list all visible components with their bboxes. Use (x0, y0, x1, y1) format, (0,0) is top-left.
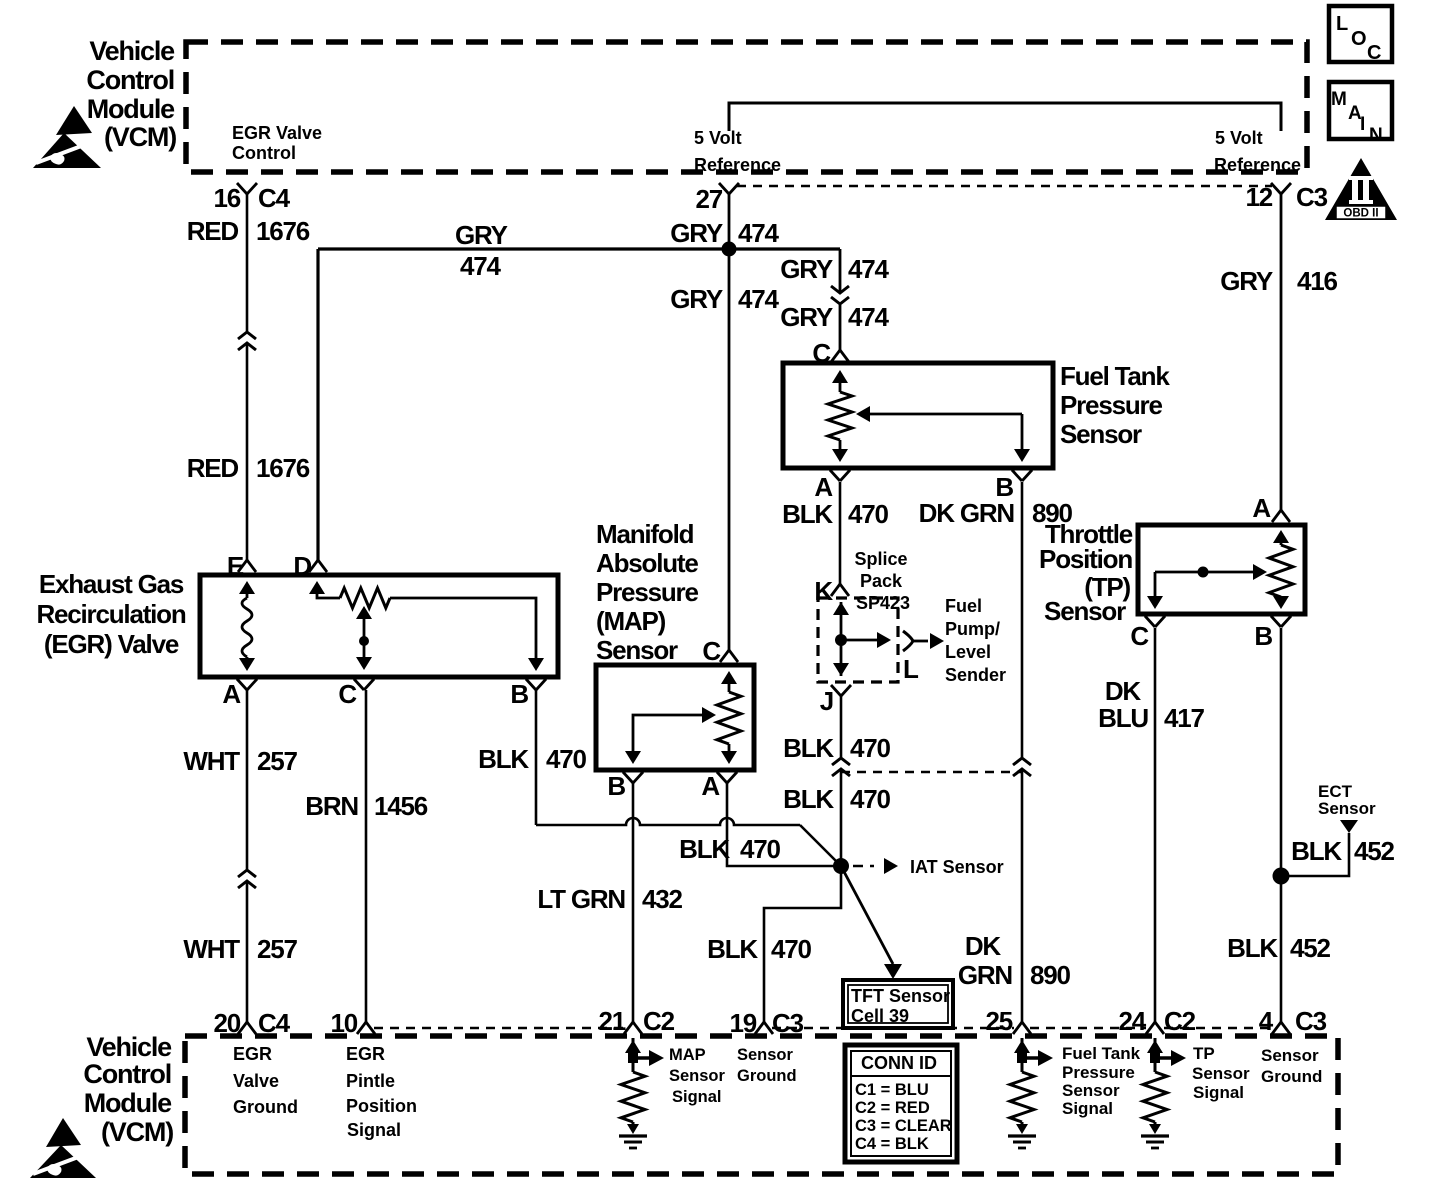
svg-text:474: 474 (738, 218, 780, 248)
svg-text:MAP: MAP (669, 1046, 706, 1064)
svg-text:GRN: GRN (958, 960, 1013, 990)
svg-text:474: 474 (848, 254, 890, 284)
svg-text:BLK: BLK (783, 733, 834, 763)
svg-text:WHT: WHT (183, 746, 240, 776)
svg-text:417: 417 (1164, 703, 1205, 733)
svg-text:(EGR) Valve: (EGR) Valve (44, 629, 179, 659)
svg-text:GRY: GRY (780, 302, 833, 332)
svg-text:Level: Level (945, 642, 991, 662)
svg-text:EGR: EGR (233, 1044, 272, 1064)
svg-text:12: 12 (1245, 182, 1272, 212)
svg-text:Signal: Signal (672, 1088, 722, 1106)
svg-text:Valve: Valve (233, 1071, 279, 1091)
svg-text:OBD II: OBD II (1343, 208, 1378, 220)
svg-text:27: 27 (695, 184, 722, 214)
svg-text:A: A (1252, 493, 1271, 523)
svg-text:E: E (227, 551, 244, 581)
svg-text:Control: Control (232, 143, 296, 163)
svg-text:1676: 1676 (256, 216, 310, 246)
svg-text:B: B (1254, 621, 1272, 651)
svg-text:C: C (1130, 621, 1149, 651)
svg-text:RED: RED (187, 216, 239, 246)
svg-text:Control: Control (83, 1059, 171, 1089)
svg-text:Ground: Ground (737, 1067, 797, 1085)
svg-text:Ground: Ground (1261, 1067, 1322, 1086)
svg-text:BLK: BLK (783, 784, 834, 814)
svg-text:470: 470 (740, 834, 781, 864)
svg-text:(VCM): (VCM) (104, 122, 176, 152)
svg-text:B: B (607, 771, 625, 801)
svg-text:A: A (701, 771, 720, 801)
svg-text:LT GRN: LT GRN (537, 884, 625, 914)
svg-text:C3: C3 (1295, 1006, 1327, 1036)
svg-text:BLK: BLK (1291, 836, 1342, 866)
svg-text:TP: TP (1193, 1044, 1215, 1063)
svg-text:Control: Control (86, 65, 174, 95)
svg-text:Cell 39: Cell 39 (851, 1006, 909, 1026)
svg-text:257: 257 (257, 746, 298, 776)
svg-text:L: L (1336, 13, 1348, 35)
svg-text:257: 257 (257, 934, 298, 964)
svg-text:C3 = CLEAR: C3 = CLEAR (855, 1117, 952, 1135)
svg-text:BRN: BRN (305, 791, 358, 821)
svg-text:C3: C3 (1296, 182, 1328, 212)
svg-text:(VCM): (VCM) (101, 1117, 173, 1147)
svg-text:452: 452 (1354, 836, 1395, 866)
svg-text:C: C (338, 679, 357, 709)
svg-text:470: 470 (848, 499, 889, 529)
svg-text:Sensor: Sensor (596, 635, 678, 665)
svg-text:Reference: Reference (694, 155, 781, 175)
svg-text:GRY: GRY (1220, 266, 1273, 296)
svg-text:RED: RED (187, 453, 239, 483)
svg-text:BLK: BLK (1227, 933, 1278, 963)
svg-text:Signal: Signal (1193, 1083, 1244, 1102)
svg-text:Manifold: Manifold (596, 519, 694, 549)
svg-text:Fuel Tank: Fuel Tank (1060, 361, 1170, 391)
svg-text:DK: DK (965, 931, 1002, 961)
svg-text:C2: C2 (1164, 1006, 1196, 1036)
svg-text:Vehicle: Vehicle (86, 1032, 172, 1062)
svg-text:Splice: Splice (854, 549, 907, 569)
svg-text:16: 16 (213, 183, 240, 213)
svg-text:25: 25 (985, 1006, 1012, 1036)
svg-text:Sensor: Sensor (1060, 419, 1142, 449)
svg-text:5 Volt: 5 Volt (694, 128, 742, 148)
svg-text:DK GRN: DK GRN (919, 498, 1015, 528)
svg-text:O: O (1351, 28, 1367, 50)
svg-text:Sender: Sender (945, 665, 1006, 685)
svg-text:1676: 1676 (256, 453, 310, 483)
svg-text:Recirculation: Recirculation (36, 599, 185, 629)
svg-text:Pack: Pack (860, 571, 903, 591)
svg-text:M: M (1331, 89, 1347, 110)
svg-text:WHT: WHT (183, 934, 240, 964)
svg-text:EGR Valve: EGR Valve (232, 123, 322, 143)
svg-text:470: 470 (850, 784, 891, 814)
svg-text:C: C (1367, 42, 1381, 64)
svg-text:Signal: Signal (347, 1120, 401, 1140)
svg-text:C2: C2 (643, 1006, 675, 1036)
svg-text:(MAP): (MAP) (596, 606, 666, 636)
svg-text:DK: DK (1105, 676, 1142, 706)
svg-text:21: 21 (598, 1006, 625, 1036)
svg-text:EGR: EGR (346, 1044, 385, 1064)
svg-text:B: B (510, 679, 528, 709)
svg-text:Signal: Signal (1062, 1099, 1113, 1118)
svg-text:470: 470 (546, 744, 587, 774)
svg-text:BLU: BLU (1098, 703, 1148, 733)
svg-text:Fuel: Fuel (945, 596, 982, 616)
svg-text:474: 474 (738, 284, 780, 314)
svg-text:BLK: BLK (782, 499, 833, 529)
svg-text:474: 474 (848, 302, 890, 332)
svg-text:Sensor: Sensor (1192, 1064, 1250, 1083)
svg-text:Sensor: Sensor (1318, 799, 1376, 818)
svg-text:CONN ID: CONN ID (861, 1053, 937, 1073)
svg-text:GRY: GRY (780, 254, 833, 284)
svg-text:C4 = BLK: C4 = BLK (855, 1135, 929, 1153)
svg-text:470: 470 (771, 934, 812, 964)
svg-text:A: A (222, 679, 241, 709)
svg-text:470: 470 (850, 733, 891, 763)
svg-text:4: 4 (1259, 1006, 1274, 1036)
svg-text:GRY: GRY (670, 284, 723, 314)
svg-text:Module: Module (84, 1088, 172, 1118)
svg-text:I: I (1360, 114, 1365, 135)
svg-text:Ground: Ground (233, 1097, 298, 1117)
svg-text:Pressure: Pressure (1062, 1063, 1135, 1082)
svg-text:Fuel Tank: Fuel Tank (1062, 1044, 1141, 1063)
svg-text:Vehicle: Vehicle (89, 36, 175, 66)
svg-text:Pintle: Pintle (346, 1071, 395, 1091)
svg-text:BLK: BLK (478, 744, 529, 774)
svg-text:5 Volt: 5 Volt (1215, 128, 1263, 148)
svg-text:Sensor: Sensor (737, 1046, 794, 1064)
svg-text:Module: Module (87, 94, 175, 124)
svg-text:L: L (903, 654, 919, 684)
svg-text:Exhaust Gas: Exhaust Gas (39, 569, 184, 599)
svg-text:A: A (814, 472, 833, 502)
svg-text:GRY: GRY (670, 218, 723, 248)
svg-text:TFT Sensor: TFT Sensor (851, 986, 950, 1006)
svg-text:Sensor: Sensor (1261, 1046, 1319, 1065)
svg-text:Pump/: Pump/ (945, 619, 1000, 639)
svg-text:C2 = RED: C2 = RED (855, 1099, 930, 1117)
svg-text:J: J (820, 686, 833, 716)
svg-text:BLK: BLK (679, 834, 730, 864)
svg-text:Position: Position (1039, 544, 1132, 574)
svg-text:SP423: SP423 (856, 593, 910, 613)
svg-text:C: C (702, 636, 721, 666)
svg-text:452: 452 (1290, 933, 1331, 963)
svg-text:Sensor: Sensor (669, 1067, 726, 1085)
svg-text:N: N (1369, 125, 1383, 146)
svg-text:C1 = BLU: C1 = BLU (855, 1081, 929, 1099)
svg-text:Position: Position (346, 1096, 417, 1116)
svg-text:C4: C4 (258, 183, 291, 213)
svg-text:Pressure: Pressure (596, 577, 698, 607)
svg-text:890: 890 (1030, 960, 1071, 990)
svg-text:GRY: GRY (455, 220, 508, 250)
svg-text:24: 24 (1118, 1006, 1146, 1036)
svg-text:Absolute: Absolute (596, 548, 698, 578)
svg-text:432: 432 (642, 884, 683, 914)
svg-text:1456: 1456 (374, 791, 428, 821)
svg-text:IAT Sensor: IAT Sensor (910, 857, 1004, 877)
svg-text:Sensor: Sensor (1044, 596, 1126, 626)
svg-text:D: D (293, 551, 311, 581)
svg-text:416: 416 (1297, 266, 1338, 296)
svg-text:Reference: Reference (1214, 155, 1301, 175)
svg-text:BLK: BLK (707, 934, 758, 964)
svg-text:Sensor: Sensor (1062, 1081, 1120, 1100)
svg-text:474: 474 (460, 251, 502, 281)
svg-text:Pressure: Pressure (1060, 390, 1162, 420)
